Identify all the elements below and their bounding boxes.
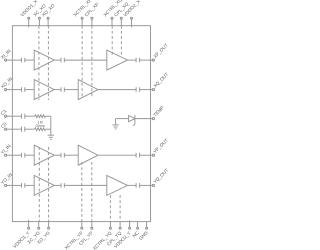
pin YP_OUT circle xyxy=(152,154,154,156)
pin CPL_YP circle xyxy=(91,227,93,229)
capacitor row3 output xyxy=(136,153,140,158)
pin CPL_XQ circle xyxy=(120,17,122,19)
buffer amp row4 first xyxy=(34,175,54,195)
pin VDD1_X circle xyxy=(28,17,30,19)
wire XC_X dashed xyxy=(38,26,40,100)
pin XQ_IN circle xyxy=(5,89,7,91)
pin NC stub xyxy=(137,222,139,228)
pin XCTRL_XQ circle xyxy=(111,17,113,19)
pin XQ_OUT circle xyxy=(152,89,154,91)
wire buffer2 to out cap xyxy=(98,89,136,91)
wire YP_IN to cap xyxy=(7,154,22,156)
pin YQ_OUT circle xyxy=(152,184,154,186)
pin CPL_YP stub xyxy=(91,222,93,228)
pin VDD2_Y stub xyxy=(129,222,131,228)
buffer amp row1 first xyxy=(34,50,54,70)
buffer amp row1 second xyxy=(107,50,128,70)
pin XO_Y stub xyxy=(48,222,50,228)
capacitor row2 input xyxy=(22,87,25,92)
resistor R1 1M xyxy=(35,115,46,118)
pin XCTRL_XP stub xyxy=(81,19,83,26)
wire cap to buffer xyxy=(25,154,34,156)
pin YQ_IN circle xyxy=(5,184,7,186)
capacitor row4 mid xyxy=(61,183,64,188)
buffer amp row4 second xyxy=(107,175,128,195)
svg-text:Ohms: Ohms xyxy=(36,124,46,128)
wire CPL_XP dashed xyxy=(91,26,93,98)
wire CPL_XQ dashed xyxy=(120,26,122,56)
pin XP_OUT circle xyxy=(152,59,154,61)
pin C0 circle xyxy=(5,128,7,130)
wire XO_X dashed xyxy=(47,26,49,100)
wire XQ_IN to cap xyxy=(7,89,22,91)
pin CPL_XP stub xyxy=(91,19,93,26)
ground temp diode xyxy=(112,119,118,129)
pin XCTRL_YQ stub xyxy=(109,222,111,228)
wire cap to buffer xyxy=(25,89,34,91)
wire buffer2 to out cap xyxy=(98,154,136,156)
wire VDD1_X stub below border xyxy=(28,26,30,28)
capacitor row2 output xyxy=(136,87,140,92)
wire R2 to bus xyxy=(46,128,51,130)
capacitor row3 mid xyxy=(61,153,64,158)
pin CPL_YQ circle xyxy=(119,227,121,229)
wire mid cap to buffer2 xyxy=(64,184,107,186)
pin VDD2_X stub xyxy=(131,19,133,26)
wire XCTRL_YP dashed xyxy=(81,162,83,222)
wire XP_IN to cap xyxy=(7,59,22,61)
wire buffer to mid cap xyxy=(54,89,61,91)
pin XC_Y circle xyxy=(38,227,40,229)
wire buffer to mid cap xyxy=(54,59,61,61)
pin YP_IN circle xyxy=(5,154,7,156)
wire VDD1_Y stub above border xyxy=(28,220,30,222)
wire cap to buffer xyxy=(25,59,34,61)
wire XCTRL_XP dashed xyxy=(81,26,83,98)
pin XO_X circle xyxy=(47,17,49,19)
wire CPL_YQ dashed xyxy=(119,195,121,222)
wire mid cap to buffer2 xyxy=(64,59,107,61)
wire cap to buffer xyxy=(25,184,34,186)
wire out cap to pin YP_OUT xyxy=(140,154,153,156)
pin XC_X stub xyxy=(38,19,40,26)
capacitor C1 series xyxy=(22,114,25,119)
pin XC_Y stub xyxy=(38,222,40,228)
wire mid cap to buffer2 xyxy=(64,89,78,91)
capacitor C0 series xyxy=(22,127,25,132)
wire XCTRL_YQ dashed xyxy=(109,195,111,222)
wire C1 to cap xyxy=(7,115,22,117)
pin CPL_YQ stub xyxy=(119,222,121,228)
pin CPL_XQ stub xyxy=(120,19,122,26)
pin XCTRL_XP circle xyxy=(81,17,83,19)
wire diode to pin TEMP xyxy=(135,118,152,120)
pin GND circle xyxy=(146,227,148,229)
pin XCTRL_YP stub xyxy=(81,222,83,228)
capacitor row1 output xyxy=(136,58,140,63)
pin XO_Y circle xyxy=(48,227,50,229)
pin CPL_XP circle xyxy=(91,17,93,19)
pin XO_X stub xyxy=(47,19,49,26)
pin C1 circle xyxy=(5,115,7,117)
buffer amp row2 first xyxy=(34,80,54,100)
resistor R2 1M xyxy=(35,128,46,131)
pin VDD1_X stub xyxy=(28,19,30,26)
buffer amp row3 second xyxy=(78,145,98,165)
pin XCTRL_YP circle xyxy=(81,227,83,229)
capacitor row3 input xyxy=(22,153,25,158)
wire buffer2 to out cap xyxy=(128,184,137,186)
wire VDD2_X stub below border xyxy=(131,26,133,28)
wire cap to resistor R2 xyxy=(25,128,35,130)
wire XCTRL_XQ dashed xyxy=(111,26,113,56)
pin GND stub xyxy=(146,222,148,228)
diode D1 temp sense xyxy=(129,115,135,126)
wire out cap to pin YQ_OUT xyxy=(140,184,153,186)
pin XP_IN circle xyxy=(5,59,7,61)
wire XO_Y dashed xyxy=(48,147,50,222)
pin VDD2_Y circle xyxy=(129,227,131,229)
buffer amp row2 second xyxy=(78,80,98,100)
wire ground to diode xyxy=(116,118,129,120)
wire C0 to cap xyxy=(7,128,22,130)
wire VDD2_Y stub above border xyxy=(129,220,131,221)
capacitor row2 mid xyxy=(61,87,64,92)
ground crystal bus xyxy=(48,135,54,139)
wire buffer to mid cap xyxy=(54,184,61,186)
wire mid cap to buffer2 xyxy=(64,154,78,156)
capacitor row4 output xyxy=(136,183,140,188)
pin XCTRL_XQ stub xyxy=(111,19,113,26)
pin TEMP circle xyxy=(152,118,154,120)
wire out cap to pin XQ_OUT xyxy=(140,89,153,91)
capacitor row1 input xyxy=(22,58,25,63)
pin NC circle xyxy=(137,227,139,229)
IC outline box xyxy=(12,26,150,222)
buffer amp row3 first xyxy=(34,145,54,165)
capacitor row1 mid xyxy=(61,58,64,63)
wire buffer2 to out cap xyxy=(128,59,137,61)
wire out cap to pin XP_OUT xyxy=(140,59,153,61)
wire CPL_YP dashed xyxy=(91,162,93,222)
pin VDD1_Y stub xyxy=(28,222,30,228)
wire buffer to mid cap xyxy=(54,154,61,156)
wire XC_Y dashed xyxy=(38,147,40,222)
pin XCTRL_YQ circle xyxy=(109,227,111,229)
pin VDD1_Y circle xyxy=(28,227,30,229)
wire bus vertical to ground xyxy=(50,116,52,135)
capacitor row4 input xyxy=(22,183,25,188)
wire YQ_IN to cap xyxy=(7,184,22,186)
wire R1 to bus xyxy=(46,115,51,117)
pin VDD2_X circle xyxy=(131,17,133,19)
wire cap to resistor R1 xyxy=(25,115,35,117)
pin XC_X circle xyxy=(38,17,40,19)
